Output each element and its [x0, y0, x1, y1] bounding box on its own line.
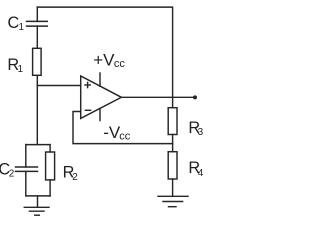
svg-text:4: 4 — [198, 168, 204, 179]
svg-text:+V: +V — [93, 50, 115, 69]
svg-text:1: 1 — [19, 22, 25, 33]
svg-text:1: 1 — [18, 64, 24, 75]
svg-text:cc: cc — [114, 58, 126, 70]
svg-text:cc: cc — [119, 130, 131, 142]
svg-text:2: 2 — [72, 172, 78, 183]
svg-text:-V: -V — [103, 123, 121, 142]
svg-text:2: 2 — [9, 168, 15, 179]
svg-text:3: 3 — [198, 127, 204, 138]
